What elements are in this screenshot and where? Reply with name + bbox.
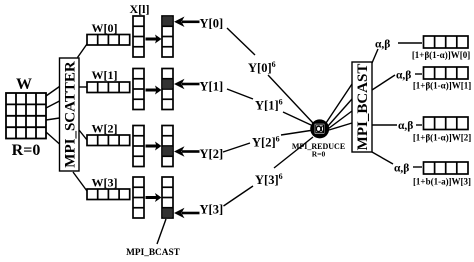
wire MPI_BCAST to strip3 (157, 219, 166, 244)
wire bcast to row2 (372, 124, 397, 126)
svg-text:Y[1]: Y[1] (200, 80, 224, 94)
arrow X to Y group1 (146, 86, 162, 95)
svg-text:R=0: R=0 (312, 150, 326, 159)
wire row1 dash (415, 73, 422, 75)
wire scatter to W[3] (73, 172, 87, 191)
svg-text:X[l]: X[l] (130, 2, 150, 16)
svg-text:W[0]: W[0] (92, 21, 118, 35)
svg-text:Y[3]6: Y[3]6 (255, 172, 283, 187)
MPI_SCATTER box (60, 58, 80, 171)
row W[2] cells (87, 135, 130, 146)
wire row3 dash (413, 166, 422, 168)
svg-text:Y[2]6: Y[2]6 (252, 135, 280, 150)
svg-text:W[1]: W[1] (92, 68, 118, 82)
svg-text:Y[0]: Y[0] (200, 17, 224, 31)
wire node to bcast 2 (328, 99, 352, 126)
wire Y[3] to Y[3]^6 (224, 186, 254, 206)
svg-text:α,β: α,β (394, 163, 409, 175)
column X strip group1 (133, 69, 144, 110)
row3 cells (424, 162, 469, 174)
wire bcast to row0 (372, 49, 378, 63)
wire bcast to row3 (372, 152, 393, 164)
svg-text:α,β: α,β (396, 70, 411, 82)
wire node to bcast 1 (326, 84, 352, 123)
wire row2 dash (416, 124, 422, 126)
svg-text:[1+β(1-α)]W[2]: [1+β(1-α)]W[2] (413, 133, 471, 143)
MPI_BCAST box (352, 62, 372, 152)
column X strip group0 (133, 16, 144, 57)
wire grid to scatter 1 (46, 87, 60, 97)
arrow Y[3] to filled cell (174, 208, 200, 219)
svg-text:Y[2]: Y[2] (200, 147, 224, 161)
wire Y[0] to Y[0]^6 (227, 28, 255, 55)
svg-text:Y[0]6: Y[0]6 (248, 60, 276, 75)
column Y strip group1 (cell 1 filled) (162, 69, 173, 110)
row1 cells (424, 67, 469, 79)
svg-text:MPI_BCAST: MPI_BCAST (126, 248, 181, 258)
row W[3] cells (87, 189, 130, 200)
wire scatter to W[1] (79, 86, 87, 88)
svg-text:α,β: α,β (398, 120, 413, 132)
wire Y[1] to Y[1]^6 (227, 89, 253, 99)
arrow Y[1] to filled cell (174, 79, 200, 90)
svg-text:W: W (16, 76, 32, 93)
wire scatter to W[0] (78, 44, 88, 58)
svg-text:W[2]: W[2] (92, 122, 118, 136)
arrow Y[0] to filled cell (174, 17, 200, 28)
wire grid to scatter 4 (46, 132, 60, 144)
arrow Y[2] to filled cell (174, 146, 200, 157)
svg-text:[1+β(1-α)]W[1]: [1+β(1-α)]W[1] (413, 81, 471, 91)
column Y strip group3 (cell 3 filled) (162, 177, 173, 218)
row2 cells (424, 117, 469, 130)
column X strip group2 (133, 126, 144, 167)
svg-text:Y[1]6: Y[1]6 (255, 98, 283, 113)
row0 cells (424, 36, 469, 48)
wire node to bcast 3 (329, 111, 353, 129)
matrix W 4x4 grid (6, 93, 46, 139)
wire Y[0]^6 to node (268, 75, 313, 123)
wire row0 dash (398, 42, 422, 44)
row W[0] cells (87, 35, 130, 46)
wire Y[2]^6 to node (281, 131, 311, 136)
svg-text:MPI_BCAST: MPI_BCAST (355, 64, 371, 151)
svg-text:α,β: α,β (375, 39, 390, 51)
svg-text:[1+β(1-α)]W[0]: [1+β(1-α)]W[0] (412, 50, 470, 60)
column X strip group3 (133, 177, 144, 218)
arrow X to Y group0 (146, 35, 162, 44)
column Y strip group0 (cell 0 filled) (162, 16, 173, 57)
svg-text:Y[3]: Y[3] (200, 203, 224, 217)
arrow X to Y group3 (146, 193, 162, 202)
node MPI_REDUCE alpha (310, 119, 329, 138)
svg-text:R=0: R=0 (12, 142, 41, 159)
arrow X to Y group2 (146, 142, 162, 151)
wire grid to scatter 3 (46, 118, 60, 120)
svg-text:MPI_SCATTER: MPI_SCATTER (63, 61, 79, 168)
wire Y[3]^6 to node (274, 137, 313, 168)
svg-text:[1+b(1-a)]W[3]: [1+b(1-a)]W[3] (413, 177, 471, 187)
wire node to bcast 4 (329, 123, 352, 130)
row W[1] cells (87, 82, 130, 93)
wire Y[1]^6 to node (283, 112, 311, 125)
wire Y[2] to Y[2]^6 (223, 143, 250, 152)
column Y strip group2 (cell 2 filled) (162, 126, 173, 167)
svg-text:W[3]: W[3] (92, 176, 118, 190)
wire grid to scatter 2 (46, 101, 60, 108)
wire bcast to row1 (372, 75, 395, 90)
wire scatter to W[2] (79, 130, 87, 140)
